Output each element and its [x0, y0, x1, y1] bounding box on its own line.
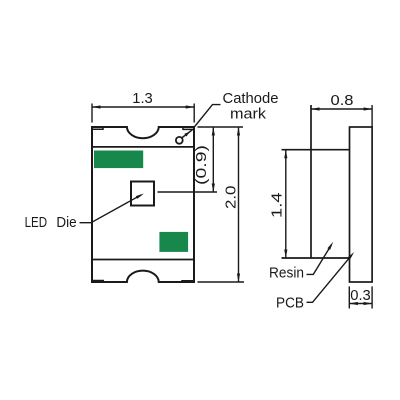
- svg-text:LED: LED: [25, 215, 47, 231]
- side view resin top edge: [282, 149, 350, 151]
- dimension 1.4 arrow bottom: [284, 250, 287, 259]
- leader Resin: [307, 245, 332, 275]
- electrode pad green bottom-right: [159, 232, 188, 252]
- dimension 2.0 extension line top: [198, 126, 244, 128]
- leader Resin arrowhead: [327, 242, 333, 250]
- svg-text:0.3: 0.3: [350, 288, 371, 304]
- dimension 0.3 extension left: [348, 286, 350, 308]
- leader PCB: [307, 255, 352, 302]
- cathode mark symbol arrow shaft: [182, 130, 193, 138]
- svg-text:0.8: 0.8: [331, 93, 354, 109]
- side view PCB rectangle: [350, 127, 373, 282]
- dimension 1.4 arrow top: [284, 150, 287, 159]
- package outline (top view): [92, 127, 194, 282]
- cathode mark symbol circle: [176, 137, 183, 144]
- LED die square: [131, 182, 154, 206]
- leader LED Die: [80, 195, 142, 223]
- leader PCB arrowhead: [348, 252, 355, 260]
- dimension 1.3 line: [92, 106, 194, 108]
- dimension 1.4 line: [285, 150, 287, 258]
- corner mark top-left: [93, 127, 104, 129]
- svg-text:1.3: 1.3: [132, 91, 153, 107]
- corner mark top-right: [183, 127, 194, 129]
- dimension 0.8 extension right: [371, 105, 373, 127]
- svg-text:(0.9): (0.9): [194, 145, 210, 185]
- dimension (0.9) arrow top: [212, 127, 215, 136]
- dimension (0.9) extension line at die center: [158, 191, 218, 193]
- leader LED Die arrowhead: [136, 194, 144, 199]
- dimension 0.8 arrow left: [311, 107, 320, 110]
- svg-text:2.0: 2.0: [223, 186, 239, 210]
- svg-text:Resin: Resin: [269, 266, 304, 282]
- dimension 0.3 arrow right: [364, 302, 373, 305]
- electrode pad green top-left: [94, 151, 143, 169]
- dimension 1.3 extension line right: [193, 104, 195, 123]
- leader Cathode mark: [194, 105, 220, 127]
- dimension 0.3 extension right: [371, 286, 373, 308]
- dimension 2.0 line: [238, 127, 240, 282]
- dimension 2.0 arrow top: [237, 127, 240, 136]
- dimension 1.3 arrow left: [92, 105, 101, 108]
- corner mark bottom-right: [182, 281, 194, 282]
- dimension (0.9) line: [212, 127, 214, 192]
- svg-text:PCB: PCB: [276, 296, 304, 312]
- cathode mark symbol arrowhead: [184, 132, 189, 137]
- svg-text:1.4: 1.4: [269, 192, 285, 218]
- corner mark bottom-left: [93, 281, 104, 283]
- dimension 0.8 line: [311, 108, 372, 110]
- svg-text:mark: mark: [230, 106, 267, 122]
- side view resin left edge + 0.8 extension: [310, 105, 312, 258]
- dimension (0.9) arrow bottom: [212, 184, 215, 193]
- dimension 1.3 extension line left: [91, 104, 93, 123]
- side view resin bottom edge: [282, 257, 350, 259]
- dimension 0.3 line: [349, 303, 372, 305]
- dimension 1.3 arrow right: [186, 105, 195, 108]
- dimension 0.8 arrow right: [364, 107, 373, 110]
- terminal band line top: [92, 146, 194, 148]
- dimension 2.0 arrow bottom: [237, 274, 240, 283]
- dimension 2.0 extension line bottom: [198, 281, 245, 283]
- dimension 0.3 arrow left: [349, 302, 358, 305]
- svg-text:Die: Die: [56, 215, 76, 231]
- svg-text:Cathode: Cathode: [223, 91, 279, 107]
- terminal band line bottom: [92, 259, 194, 261]
